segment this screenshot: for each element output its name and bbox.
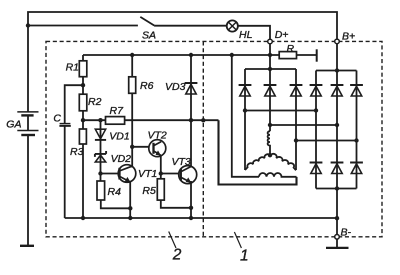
svg-text:GA: GA	[6, 118, 21, 130]
svg-text:R7: R7	[110, 105, 125, 117]
svg-text:HL: HL	[239, 29, 253, 41]
svg-text:VT2: VT2	[148, 129, 167, 141]
svg-text:SA: SA	[142, 29, 156, 41]
svg-text:R: R	[287, 43, 295, 55]
svg-text:2: 2	[172, 247, 182, 264]
svg-text:R4: R4	[108, 186, 122, 198]
svg-text:B+: B+	[342, 30, 355, 42]
svg-text:1: 1	[240, 248, 249, 265]
svg-text:B-: B-	[341, 227, 352, 239]
svg-text:VD1: VD1	[109, 131, 129, 143]
svg-text:VD3: VD3	[165, 81, 186, 93]
svg-text:VD2: VD2	[111, 153, 132, 165]
svg-text:R1: R1	[66, 62, 79, 74]
svg-text:VT1: VT1	[138, 168, 157, 180]
svg-text:R2: R2	[88, 96, 102, 108]
svg-text:R6: R6	[140, 80, 154, 92]
svg-text:VT3: VT3	[172, 156, 191, 168]
svg-text:D+: D+	[275, 29, 289, 41]
svg-text:R3: R3	[70, 146, 84, 158]
svg-text:R5: R5	[142, 185, 156, 197]
svg-text:C: C	[53, 112, 61, 124]
